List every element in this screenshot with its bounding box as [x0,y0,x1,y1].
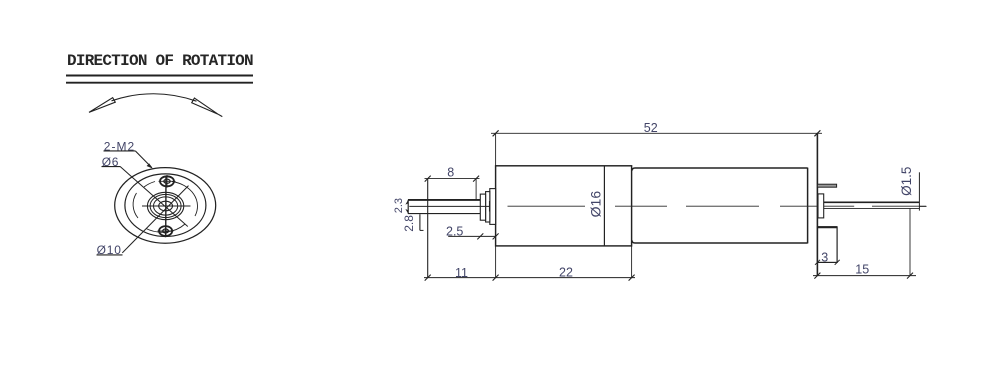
label D6 underline [102,166,121,168]
motor can back face [807,168,809,244]
svg-text:52: 52 [644,121,658,135]
dim 2.3 arrow top [405,200,408,205]
screw M2 bottom [159,226,172,236]
rear terminal tab [817,184,836,187]
svg-text:Ø1.5: Ø1.5 [899,167,914,196]
front ring step [486,192,490,222]
dim 2.5 tick right [493,233,499,239]
rear shaft bottom edge [824,207,920,209]
dim 15 tick right [907,273,913,279]
label D10 underline [97,254,123,256]
bolt circle D10 arc left [133,193,138,218]
extension 495.6 bottom [495,246,497,278]
rear shaft top edge [824,201,920,203]
rotation arrow right head [192,98,219,114]
front hub ring middle [150,194,181,217]
dim 8 line [425,178,480,180]
extension 631.6 bottom [631,246,633,278]
rotation arrow arc [112,94,197,101]
dim 2.3 arrow bottom [405,209,408,214]
dim 8 tick left [425,176,431,182]
rotation arrow right tail [218,114,222,116]
front flange step D6 [490,189,496,225]
dim 2.8 line [419,214,421,230]
centerline main dashed [508,205,927,207]
svg-text:8: 8 [447,166,454,180]
front hub ring inner [154,197,178,215]
dim 8 tick right [473,176,479,182]
gearbox internal line [603,166,605,246]
center cross tick at boss [488,201,490,212]
label 2-M2 underline [104,150,136,152]
front shaft circle [159,201,173,211]
leader 2-M2 [135,151,152,168]
dim 52 left extension [495,133,497,166]
title underline 1 [66,75,253,77]
dim 52 line [491,132,822,134]
leader diagonal from D6 label [120,166,188,226]
dim 3 tick right [835,260,840,265]
gearbox body [496,166,632,246]
bolt circle D10 arc top-left [144,182,155,188]
front view motor can circle D12 [125,174,206,237]
dim 3 tick left [815,260,820,265]
svg-text:2.8: 2.8 [402,215,416,232]
dim 2.5 tick left [477,233,483,239]
front hub ring D6 outer [147,192,183,219]
dim D1.5 vertical line [918,172,920,210]
screw M2 top slot [164,179,170,183]
title underline 2 [66,82,253,84]
svg-text:3: 3 [821,251,828,265]
screw M2 bottom slot [163,229,169,233]
screw M2 bottom cross ticks [158,225,174,237]
front view outer circle D16 [115,168,216,244]
rotation arrow left head [89,98,115,113]
dim 52 tick right [814,130,820,136]
svg-text:15: 15 [855,263,869,277]
dim 52 tick left [493,130,499,136]
output shaft bottom edge [408,213,480,215]
dim 15 right extension [909,209,911,276]
dim 15 line [813,275,916,277]
terminal block [817,227,837,263]
output shaft top edge [408,199,480,201]
svg-text:22: 22 [559,266,573,280]
dim 8 right extension [475,179,477,199]
motor can outline [632,168,808,243]
bolt circle D10 arc bottom [146,224,185,232]
dim 2.8 foot [420,229,424,231]
dim tick at 631.6 [629,275,635,281]
svg-text:2.3: 2.3 [393,198,405,213]
dim 2.5 line [448,235,495,237]
front vertical centerline through screws [165,176,167,238]
dim tick at 427.7 [425,275,431,281]
front horizontal centerline [142,205,191,207]
svg-text:11: 11 [455,266,468,280]
dim 2.3 line [407,200,409,214]
dim 11-22 baseline [424,277,635,279]
svg-text:Ø16: Ø16 [587,191,603,218]
shaft tip / extension line [427,179,429,278]
rear bracket line [816,133,818,275]
rear bearing boss [818,194,824,218]
screw M2 top [160,176,174,186]
front washer step [480,194,485,220]
output shaft flat line [409,205,489,207]
screw M2 top cross ticks [159,175,176,188]
dim D1.5 foot tick [919,205,926,207]
dim tick at 495.6 [493,275,499,281]
terminal block thick top [817,226,837,228]
dim 15 tick left [814,273,820,279]
leader diagonal from D10 label [122,186,188,253]
leader 2-M2 arrowhead [147,163,153,168]
bolt circle D10 arc top-right [172,182,198,217]
svg-text:DIRECTION OF ROTATION: DIRECTION OF ROTATION [67,52,253,70]
